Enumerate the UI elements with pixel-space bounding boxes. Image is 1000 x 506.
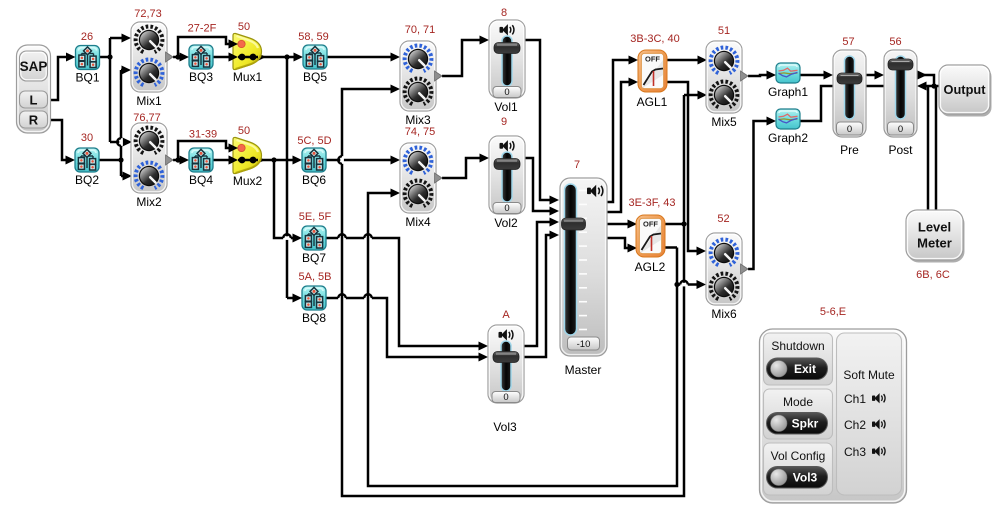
multiplexer Mux1 [233, 33, 262, 69]
wire hop [338, 296, 346, 300]
biquad BQ2 [75, 148, 99, 172]
panel Soft Mute [837, 333, 902, 495]
biquad BQ7 [302, 226, 326, 250]
arrowhead into Mix1 in2 [122, 66, 132, 75]
arrowhead into Mix4 in2 [391, 189, 401, 198]
svg-text:52: 52 [717, 213, 729, 225]
slider Pre [833, 50, 866, 137]
svg-text:Meter: Meter [917, 236, 952, 251]
svg-text:A: A [502, 309, 510, 321]
svg-text:Mux1: Mux1 [233, 70, 263, 84]
arrowhead into Post return [917, 82, 927, 91]
svg-text:Mix4: Mix4 [405, 215, 431, 229]
wire BQ2 out [99, 159, 121, 162]
mixer Mix6 [706, 233, 748, 305]
button Level Meter [906, 210, 965, 263]
svg-text:R: R [29, 113, 39, 128]
slider Master [560, 178, 607, 356]
svg-text:BQ6: BQ6 [302, 173, 326, 187]
arrowhead into BQ4 [180, 156, 190, 165]
wire Mux1 out to BQ5 [238, 56, 294, 59]
arrowhead into BQ5 [294, 53, 304, 62]
biquad BQ5 [303, 45, 327, 69]
svg-text:26: 26 [81, 31, 93, 43]
wire Vol1 to Master [525, 40, 550, 200]
svg-text:0: 0 [898, 124, 903, 135]
wire Pre to Post ch2 [866, 85, 884, 88]
svg-text:3E-3F, 43: 3E-3F, 43 [628, 197, 675, 209]
biquad BQ4 [189, 148, 213, 172]
wire loop to Mix6 in2 [677, 283, 697, 286]
svg-text:Ch1: Ch1 [844, 392, 866, 406]
arrowhead into Mix2 in1 [123, 138, 133, 147]
arrowhead into Post [875, 71, 885, 80]
arrowhead into Mux1 select [229, 40, 239, 49]
svg-text:Shutdown: Shutdown [771, 339, 824, 353]
arrowhead into BQ2 [66, 156, 76, 165]
button Exit [767, 358, 828, 380]
junction BQ2 bus [118, 157, 123, 162]
biquad BQ3 [189, 45, 213, 69]
arrowhead into Graph2 [767, 117, 777, 126]
svg-text:BQ8: BQ8 [302, 311, 326, 325]
svg-text:5-6,E: 5-6,E [820, 306, 846, 318]
svg-text:Mix2: Mix2 [136, 195, 162, 209]
svg-text:Mix1: Mix1 [136, 94, 162, 108]
wire to BQ8 [287, 297, 294, 300]
wire Mux2 bus down to BQ7 [274, 160, 294, 238]
graph icon Graph1 [776, 63, 800, 83]
wire hop BQ7 line over Mux1 bus [283, 236, 291, 240]
svg-text:Vol2: Vol2 [494, 216, 518, 230]
wire Vol3 to Master in4 [524, 235, 550, 357]
junction Mix2 out [175, 157, 180, 162]
svg-text:8: 8 [501, 7, 507, 19]
button Spkr [767, 413, 828, 435]
wire AGL1 to Mix5 in1 [667, 59, 698, 62]
wire Master to AGL1 in1 [605, 60, 629, 202]
wire Master to AGL2 in1 [605, 223, 628, 226]
wire Mix6 to Graph2 [748, 121, 767, 269]
junction Mux2 out [271, 157, 276, 162]
wire BQ2 bus vertical [120, 70, 123, 176]
arrowhead into Mux2 select (over) [229, 144, 239, 153]
svg-text:74, 75: 74, 75 [405, 126, 436, 138]
arrowhead into AGL1 in1 [629, 56, 639, 65]
wire Mux1 bus down [286, 57, 289, 298]
multiplexer Mux2 [233, 137, 262, 173]
svg-text:Graph1: Graph1 [768, 85, 808, 99]
svg-text:Master: Master [565, 363, 602, 377]
svg-text:70, 71: 70, 71 [405, 24, 436, 36]
arrowhead into Mux1 (over) [229, 53, 239, 62]
arrowhead into AGL2 in2 [628, 244, 638, 253]
graph icon Graph2 [776, 109, 800, 129]
wire hop at Mix2-in1 crossing [119, 138, 123, 146]
arrowhead into Vol1 [480, 36, 490, 45]
svg-text:7: 7 [574, 159, 580, 171]
wire Master to AGL1 in2 [605, 82, 629, 212]
svg-text:50: 50 [238, 21, 250, 33]
svg-text:0: 0 [504, 87, 509, 98]
wire Mix3 to Vol1 [442, 40, 480, 76]
input group container [17, 45, 51, 133]
svg-text:Vol3: Vol3 [793, 471, 818, 485]
wire Vol2 to Master [525, 158, 550, 211]
wire L to BQ1 [51, 57, 66, 100]
svg-text:AGL1: AGL1 [637, 95, 668, 109]
svg-text:0: 0 [503, 392, 508, 403]
wire hop [364, 296, 372, 300]
arrowhead into Master in1 [550, 196, 560, 205]
arrowhead into Master in3 [550, 218, 560, 227]
arrowhead into Mix5 in2 [698, 91, 708, 100]
svg-text:Vol Config: Vol Config [771, 449, 826, 463]
svg-text:Level: Level [918, 220, 951, 235]
arrowhead into Mux2 select [229, 144, 239, 153]
svg-text:51: 51 [718, 25, 730, 37]
wire AGL2 out1 [665, 223, 684, 226]
wire Pre to Post [866, 74, 875, 77]
svg-text:SAP: SAP [20, 59, 48, 74]
wire Graph2 to Pre in2 [800, 86, 833, 121]
svg-text:5A, 5B: 5A, 5B [298, 271, 331, 283]
arrowhead into Vol3 in2 [479, 353, 489, 362]
wire Mux2 out to BQ6 [238, 159, 294, 162]
svg-text:OFF: OFF [645, 55, 660, 64]
arrowhead into BQ6 [293, 156, 303, 165]
wire hop [338, 236, 346, 240]
wire Vol3 to Master in3 [524, 222, 550, 346]
Mux2 through-wire [238, 159, 258, 161]
arrowhead into Mix6 in1 [697, 247, 707, 256]
button Vol3 [767, 467, 828, 489]
junction Mix1 out [175, 54, 180, 59]
junction Mux1 out [284, 54, 289, 59]
svg-text:Mix3: Mix3 [405, 113, 431, 127]
svg-text:Soft Mute: Soft Mute [843, 368, 895, 382]
mixer Mix1 [131, 22, 173, 92]
svg-text:5E, 5F: 5E, 5F [299, 211, 332, 223]
biquad BQ6 [302, 148, 326, 172]
wire to Level Meter left [927, 86, 930, 211]
junction BQ1 bus [107, 54, 112, 59]
arrowhead into AGL1 in2 [629, 78, 639, 87]
arrowhead into BQ1 [66, 53, 76, 62]
svg-text:-10: -10 [577, 339, 591, 350]
arrowhead into Mix5 in1 [698, 56, 708, 65]
wire BQ6 to Mix4 [326, 159, 391, 162]
slider Vol2 [489, 136, 525, 214]
arrowhead Mux2 out [256, 156, 266, 165]
arrowhead into BQ3 [180, 53, 190, 62]
svg-text:Ch3: Ch3 [844, 445, 866, 459]
arrowhead into Mix1 in1 [122, 34, 132, 43]
arrowhead Mux1 out [257, 53, 267, 62]
arrowhead into Mux2 [229, 156, 239, 165]
svg-text:6B, 6C: 6B, 6C [916, 269, 950, 281]
wire R to BQ2 [51, 120, 66, 160]
svg-text:3B-3C, 40: 3B-3C, 40 [630, 33, 680, 45]
wire feedback loop to Mix3 in2 [342, 89, 684, 496]
wire BQ7 to Vol3 in1 [326, 238, 479, 346]
junction AGL2 out1 on loop bus [681, 221, 686, 226]
svg-text:Pre: Pre [840, 143, 859, 157]
wire BQ1 out [100, 56, 111, 59]
arrowhead into Vol2 [480, 154, 490, 163]
Mux1 through-wire [238, 56, 258, 58]
wire BQ4 to Mux2 [213, 159, 229, 162]
mixer Mix5 [706, 41, 748, 113]
wire to Mix1 in2 [121, 69, 123, 72]
button L [20, 91, 48, 108]
arrowhead into Mix3 in2 [391, 85, 401, 94]
svg-text:Mix6: Mix6 [711, 307, 737, 321]
svg-text:30: 30 [81, 132, 93, 144]
junction Post out tap [931, 83, 936, 88]
wire to Mix2 in2 [121, 175, 123, 178]
wire to Mix1 in1 [110, 37, 122, 40]
wire AGL1 to Mix6 in1 [667, 82, 697, 251]
svg-text:BQ3: BQ3 [189, 70, 213, 84]
svg-text:BQ2: BQ2 [75, 173, 99, 187]
mute channel Ch2 [844, 418, 885, 432]
svg-text:Spkr: Spkr [792, 417, 819, 431]
biquad BQ8 [302, 286, 326, 310]
panel Mode [764, 389, 833, 439]
mute channel Ch3 [844, 445, 885, 459]
svg-text:50: 50 [238, 125, 250, 137]
wire hop [364, 236, 372, 240]
wire Graph1 to Pre [800, 74, 824, 77]
AGL limiter AGL2 [636, 215, 665, 257]
svg-text:BQ7: BQ7 [302, 251, 326, 265]
button SAP [20, 51, 48, 81]
wire Mix1 to Mux1 select [178, 37, 229, 57]
arrowhead into Mux2 (over) [229, 156, 239, 165]
arrowhead into BQ7 [293, 234, 303, 243]
wire Mix1 out [173, 56, 180, 59]
svg-text:Vol1: Vol1 [494, 100, 518, 114]
svg-text:58, 59: 58, 59 [298, 31, 329, 43]
arrowhead into AGL2 in1 [628, 220, 638, 229]
wire loop to Mix5 in2 [684, 94, 698, 97]
arrowhead into Mix3 in1 [391, 53, 401, 62]
arrowhead into Mix4 in1 [391, 156, 401, 165]
svg-text:AGL2: AGL2 [635, 260, 666, 274]
biquad BQ1 [76, 46, 100, 70]
svg-text:Exit: Exit [794, 362, 816, 376]
wire Post out [917, 75, 934, 86]
svg-text:Mux2: Mux2 [233, 174, 263, 188]
wire to Level Meter right [935, 86, 938, 211]
svg-text:56: 56 [889, 36, 901, 48]
mixer Mix3 [400, 41, 442, 111]
arrowhead into Master in2 [550, 207, 560, 216]
svg-text:BQ1: BQ1 [75, 71, 99, 85]
arrowhead into Master in4 [550, 231, 560, 240]
wire Master to AGL2 in2 [605, 238, 628, 248]
wire Mix2 out [173, 159, 180, 162]
svg-text:BQ5: BQ5 [303, 70, 327, 84]
wire feedback loop to Mix4 in2 [368, 193, 677, 486]
svg-text:31-39: 31-39 [189, 129, 217, 141]
svg-text:Ch2: Ch2 [844, 418, 866, 432]
slider Vol1 [489, 20, 525, 98]
wire BQ1 bus vertical [109, 38, 112, 142]
wire Mix5 to Graph1 [748, 75, 767, 76]
arrowhead into Graph1 [767, 71, 777, 80]
button R [20, 111, 48, 128]
slider Post [884, 50, 917, 137]
arrowhead into Mix2 in2 [123, 172, 133, 181]
mixer Mix4 [400, 143, 442, 213]
wire hop Mix6-in2 over loop bus [680, 283, 688, 287]
junction AGL2 out2 branch [674, 282, 679, 287]
svg-text:L: L [30, 93, 38, 108]
svg-text:9: 9 [501, 116, 507, 128]
svg-text:Mode: Mode [783, 395, 813, 409]
arrowhead Post out [918, 71, 928, 80]
slider Vol3 [488, 325, 524, 403]
svg-text:27-2F: 27-2F [188, 23, 217, 35]
panel Vol Config [764, 443, 833, 495]
button Output [939, 65, 992, 117]
arrowhead into Pre [824, 71, 834, 80]
svg-text:Graph2: Graph2 [768, 131, 808, 145]
svg-text:5C, 5D: 5C, 5D [297, 135, 331, 147]
arrowhead into Mix6 in2 [697, 280, 707, 289]
mute channel Ch1 [844, 392, 885, 406]
panel Shutdown [764, 333, 833, 385]
wire to Output [926, 85, 939, 88]
wire Mix2 to Mux2 select [178, 141, 229, 160]
wire BQ3 to Mux1 [213, 56, 229, 59]
wire Mix4 to Vol2 [442, 158, 480, 178]
wire BQ5 to Mix3 [326, 56, 391, 59]
svg-text:OFF: OFF [643, 220, 658, 229]
wire BQ8 to Vol3 in2 [326, 298, 479, 357]
control panel container [760, 329, 907, 503]
arrowhead into Mux1 select (over) [229, 40, 239, 49]
svg-text:Output: Output [944, 82, 987, 97]
svg-text:Vol3: Vol3 [493, 420, 517, 434]
mixer Mix2 [131, 123, 173, 193]
arrowhead into BQ8 [293, 294, 303, 303]
svg-text:Post: Post [888, 143, 913, 157]
wire hop loop over BQ6 line [340, 156, 344, 164]
wire AGL2 out2 [665, 246, 677, 249]
svg-text:57: 57 [842, 36, 854, 48]
AGL limiter AGL1 [638, 50, 667, 92]
arrowhead into Mux1 [229, 53, 239, 62]
svg-text:BQ4: BQ4 [189, 173, 213, 187]
arrowhead into Vol3 in1 [479, 342, 489, 351]
svg-text:0: 0 [504, 203, 509, 214]
svg-text:76,77: 76,77 [133, 112, 161, 124]
wire to Mix2 in1 [110, 141, 123, 144]
svg-text:72,73: 72,73 [134, 8, 162, 20]
svg-text:0: 0 [847, 124, 852, 135]
svg-text:Mix5: Mix5 [711, 115, 737, 129]
